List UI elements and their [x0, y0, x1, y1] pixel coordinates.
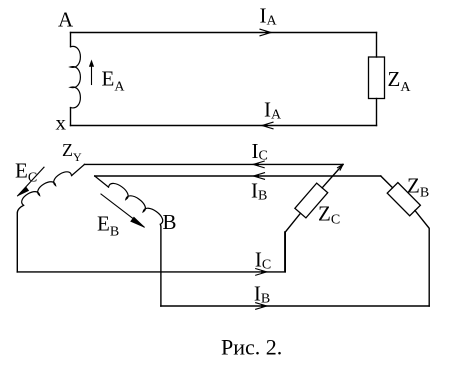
svg-text:IC: IC [252, 139, 268, 164]
svg-text:IC: IC [255, 248, 271, 273]
wire bottom I_B return [161, 305, 429, 307]
svg-text:ZC: ZC [318, 201, 340, 227]
arrow I_B top (pointing left) [254, 173, 265, 180]
wire E_C to bottom (left vertical) [17, 205, 23, 272]
wire left lower (coil to x) [70, 108, 72, 126]
arrow on Z_C lead (pointing up-right) [338, 164, 344, 170]
source winding E_B bumps [109, 183, 163, 224]
wire bottom I_C return [17, 232, 285, 272]
svg-text:A: A [58, 8, 74, 32]
wire lead Z_B upper [381, 176, 393, 188]
impedance Z_B [387, 183, 420, 216]
svg-text:IB: IB [254, 282, 270, 307]
wire top phase A [71, 32, 377, 34]
impedance Z_A [369, 57, 385, 99]
svg-text:ZA: ZA [388, 67, 412, 95]
arrow I_A bottom (current to the left) [262, 122, 273, 129]
wire right upper (to Z_A) [376, 33, 378, 58]
wire lead Z_B lower [415, 211, 429, 307]
wire bottom phase A [71, 125, 377, 127]
arrow I_C top (pointing left) [253, 161, 264, 168]
svg-text:x: x [56, 111, 67, 135]
arrow I_B bottom (pointing right) [256, 303, 267, 310]
arrow E_B [101, 194, 144, 227]
arrow E_C [18, 167, 44, 196]
svg-text:B: B [163, 210, 177, 234]
wire right lower (from Z_A) [376, 99, 378, 126]
node A [58, 8, 74, 32]
svg-text:ZY: ZY [62, 140, 82, 164]
wire lead Z_C lower [285, 213, 300, 272]
wire E_B to node B [159, 224, 162, 306]
svg-text:IA: IA [264, 98, 282, 123]
svg-text:EA: EA [102, 67, 126, 95]
svg-text:EB: EB [97, 211, 119, 239]
arrow I_C bottom (pointing right) [256, 269, 267, 276]
svg-text:IA: IA [260, 4, 278, 29]
source winding E_C (stub from line I_C) [72, 164, 85, 175]
wire lead Z_C upper with arrow [322, 164, 343, 187]
wire line I_B top (neutral to Z_B) [95, 175, 381, 177]
svg-text:Рис. 2.: Рис. 2. [221, 335, 282, 360]
source winding E_B coil [95, 176, 109, 187]
wire left upper (A to coil) [70, 33, 72, 47]
source winding E_C coil [22, 172, 72, 205]
source winding E_A [71, 46, 81, 108]
svg-text:IB: IB [251, 179, 267, 204]
svg-text:EC: EC [15, 159, 37, 186]
arrow E_A [89, 60, 94, 85]
arrow I_A top (current to the right) [260, 29, 271, 36]
svg-text:ZB: ZB [407, 173, 429, 200]
impedance Z_C [295, 183, 328, 218]
wire line I_C top (neutral to Z_C) [85, 163, 344, 165]
